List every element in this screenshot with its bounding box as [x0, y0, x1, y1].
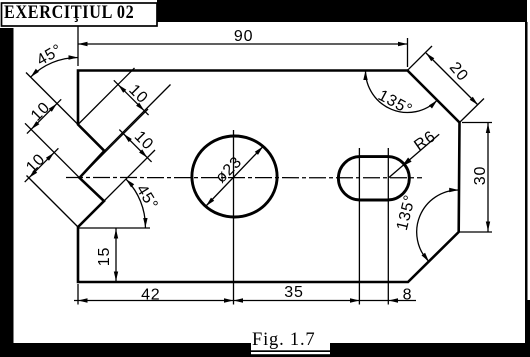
svg-text:35: 35 — [284, 284, 303, 301]
svg-text:8: 8 — [403, 287, 413, 304]
slot left-arc centerline / extension line — [358, 148, 360, 305]
top black frame band — [157, 0, 527, 22]
notch edge extension up-left from V5 — [27, 176, 79, 228]
dimension 90 (top width) — [78, 26, 408, 67]
slot right-arc centerline / extension line — [387, 148, 389, 305]
circle vertical centerline / extension line — [233, 130, 235, 305]
horizontal centerline — [66, 177, 422, 179]
dimension 10 lower-right — [119, 128, 156, 162]
dimensions 42 / 35 / 8 (bottom) — [74, 284, 416, 305]
angle dimension 45deg top-left with arc — [26, 41, 78, 124]
angle dimension 45deg at notch (middle) — [78, 179, 161, 228]
dimension 10 upper-left — [27, 99, 61, 134]
dimension diameter 23 inside circle — [206, 147, 263, 207]
angle dimension 135deg at bottom chamfer — [394, 188, 459, 262]
svg-text:90: 90 — [234, 28, 253, 45]
title box — [2, 3, 158, 26]
bottom black frame band — [0, 343, 530, 357]
svg-text:15: 15 — [96, 247, 113, 266]
radius R6 leader for slot — [389, 128, 439, 178]
hole circle diameter 23 — [192, 136, 277, 217]
notch edge extension up-right from V2 — [104, 85, 170, 151]
dimension 15 (left lower height) — [96, 228, 118, 282]
dimension 10 upper-right — [114, 80, 151, 115]
right bottom corner shadow — [527, 300, 530, 343]
title text — [4, 1, 134, 23]
right thin frame border — [525, 22, 528, 343]
dimension 30 (right height) — [460, 123, 492, 233]
dimension 20 (top chamfer) — [408, 46, 485, 123]
dimension 10 lower-left — [23, 148, 58, 182]
caption text — [252, 330, 315, 350]
part outline: plate with chamfers and double V-notch — [78, 71, 460, 283]
angle dimension 135deg at top chamfer — [363, 71, 437, 120]
svg-text:EXERCIŢIUL 02: EXERCIŢIUL 02 — [4, 1, 134, 23]
slot obround R6 — [338, 157, 409, 200]
svg-text:30: 30 — [472, 166, 489, 185]
notch edge extension up-left from V3 — [25, 123, 80, 178]
svg-text:Fig. 1.7: Fig. 1.7 — [252, 330, 315, 350]
svg-text:42: 42 — [141, 287, 160, 304]
caption box Fig. 1.7 — [251, 326, 330, 354]
left black frame band — [0, 28, 14, 357]
notch edge extension up-right from V1 — [78, 68, 135, 125]
notch edge extension up-right from V3 — [80, 109, 149, 178]
notch edge extension up-right from V4 — [104, 150, 155, 201]
